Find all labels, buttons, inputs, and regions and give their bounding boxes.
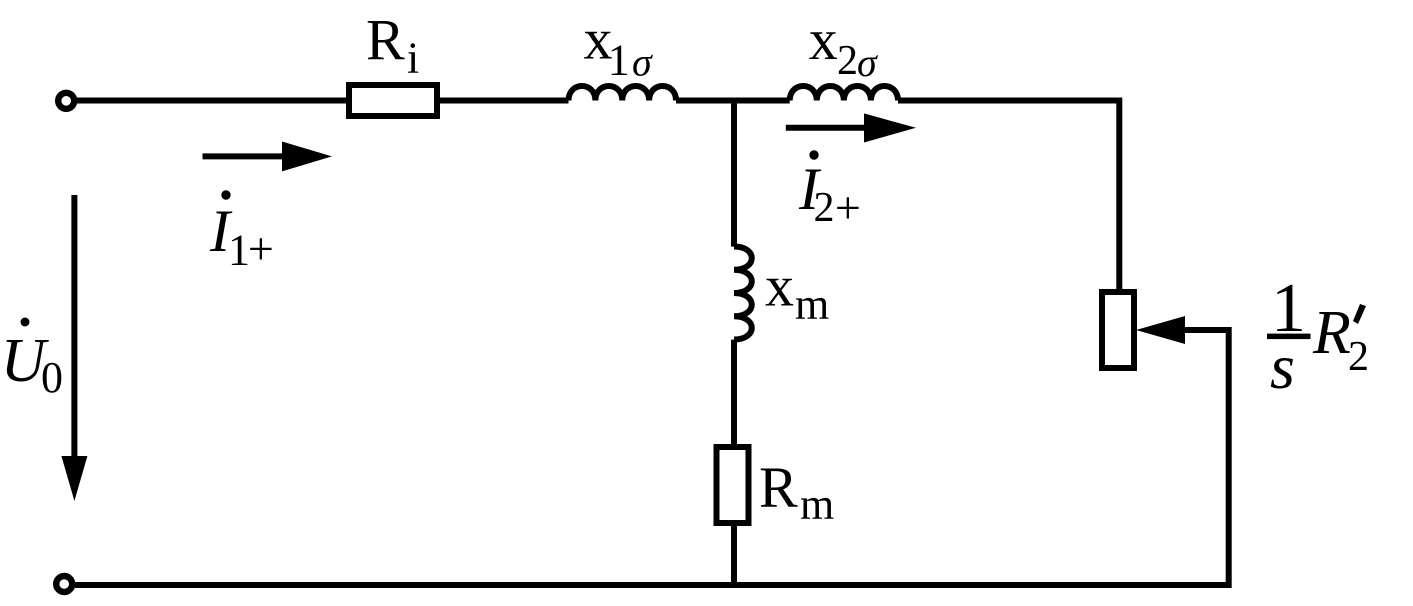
wire middle branch lower segment [731, 340, 737, 585]
svg-text:σ: σ [632, 40, 653, 85]
svg-text:2: 2 [814, 185, 835, 231]
svg-text:1: 1 [228, 226, 250, 275]
svg-text:m: m [795, 280, 829, 329]
wire between coil x1sigma and coil x2sigma [676, 98, 790, 104]
label fraction bar [1267, 334, 1311, 340]
arrow current I2+ [786, 125, 866, 131]
rheostat wiper arrowhead [1136, 316, 1185, 344]
label U0 voltage phasor [21, 318, 30, 327]
svg-text:+: + [248, 223, 274, 274]
arrow U0 voltage [71, 195, 77, 458]
svg-text:R: R [759, 455, 798, 520]
inductor x2sigma [790, 86, 898, 100]
svg-text:m: m [800, 480, 834, 529]
wire from coil x2sigma to top-right corner down to rheostat [898, 101, 1119, 293]
wire top from input terminal to resistor Ri and coil x1s [76, 98, 569, 104]
svg-text:2: 2 [837, 38, 858, 84]
svg-text:+: + [835, 182, 861, 233]
resistor Ri [349, 85, 437, 116]
svg-text:0: 0 [41, 353, 63, 402]
svg-text:σ: σ [857, 40, 878, 85]
wire far-right riser to rheostat wiper [1183, 330, 1229, 588]
label prime mark [1353, 304, 1366, 324]
svg-text:R: R [1312, 299, 1351, 367]
wire bottom from input terminal to far right [75, 582, 1229, 588]
svg-text:2: 2 [1348, 334, 1369, 380]
svg-text:1: 1 [608, 36, 630, 85]
resistor Rm box [717, 447, 749, 523]
label I2+ current phasor [809, 150, 818, 159]
svg-text:x: x [765, 254, 794, 319]
label I1+ current phasor [221, 190, 230, 199]
svg-text:s: s [1270, 331, 1295, 402]
svg-text:x: x [809, 7, 838, 72]
resistor R2prime/s (rheostat) [1102, 292, 1134, 368]
inductor x1sigma [569, 86, 677, 100]
arrow current I1+ [203, 153, 284, 159]
terminal bottom-left [56, 576, 72, 592]
terminal top-left [58, 93, 74, 109]
wire middle branch upper segment [731, 98, 737, 247]
svg-text:R: R [366, 8, 405, 73]
inductor xm [734, 247, 752, 340]
svg-text:i: i [407, 33, 419, 82]
